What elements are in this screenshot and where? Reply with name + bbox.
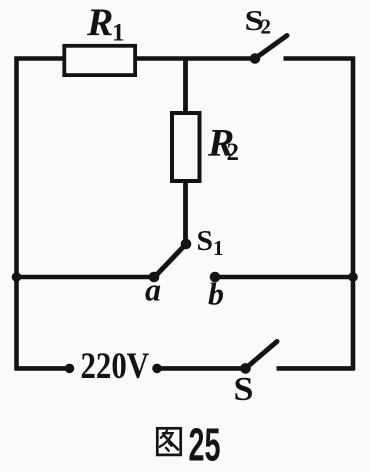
wire: bottom middle segment 220V to switch S <box>157 366 246 371</box>
svg-text:b: b <box>208 276 224 312</box>
wire: left vertical rail <box>14 57 19 371</box>
wire: right vertical rail <box>351 57 356 371</box>
node a dot <box>149 272 160 283</box>
caption text 25 <box>189 419 221 471</box>
label 220V <box>81 346 150 387</box>
wire: top middle segment R1 to S2 <box>135 56 255 61</box>
source terminal dot left <box>65 364 75 374</box>
label S2 <box>245 5 272 39</box>
svg-text:2: 2 <box>227 139 240 166</box>
label a <box>145 272 161 308</box>
wire: top right segment S2 to right rail <box>284 56 356 61</box>
switch S pivot dot <box>240 363 251 374</box>
label S1 <box>197 225 224 260</box>
svg-text:2: 2 <box>261 15 272 39</box>
switch S1 blade <box>156 244 187 276</box>
svg-text:a: a <box>145 272 161 308</box>
wire: top left segment to R1 <box>15 56 67 61</box>
source terminal dot right <box>152 364 162 374</box>
svg-text:S: S <box>234 371 254 408</box>
svg-text:1: 1 <box>112 20 125 47</box>
junction dot left middle rail <box>12 272 22 282</box>
resistor R1 <box>64 46 135 75</box>
svg-text:R: R <box>86 0 113 44</box>
label b <box>208 276 224 312</box>
caption glyph 图 (drawn) <box>157 428 180 455</box>
svg-text:1: 1 <box>213 236 224 260</box>
svg-text:25: 25 <box>189 419 221 471</box>
svg-text:220V: 220V <box>81 346 150 387</box>
svg-text:S: S <box>197 225 214 257</box>
node b dot <box>210 272 221 283</box>
wire: middle right segment node b to right rail <box>215 275 355 280</box>
wire: R2 branch lower (R2 to S1 pivot) <box>183 181 188 244</box>
label R1 <box>86 0 125 47</box>
wire: bottom left segment to 220V terminal <box>15 366 70 371</box>
switch S blade <box>246 342 278 369</box>
label R2 <box>207 120 239 166</box>
label S <box>234 371 254 408</box>
wire: R2 branch upper (top wire to R2) <box>183 59 188 115</box>
junction dot right middle rail <box>348 272 358 282</box>
wire: bottom right segment switch S to right rail <box>277 366 356 371</box>
wire: middle left segment to node a <box>15 275 155 280</box>
resistor R2 <box>172 113 200 181</box>
switch S1 pivot dot <box>181 239 192 250</box>
switch S2 blade <box>255 36 287 59</box>
switch S2 pivot dot <box>250 53 261 64</box>
